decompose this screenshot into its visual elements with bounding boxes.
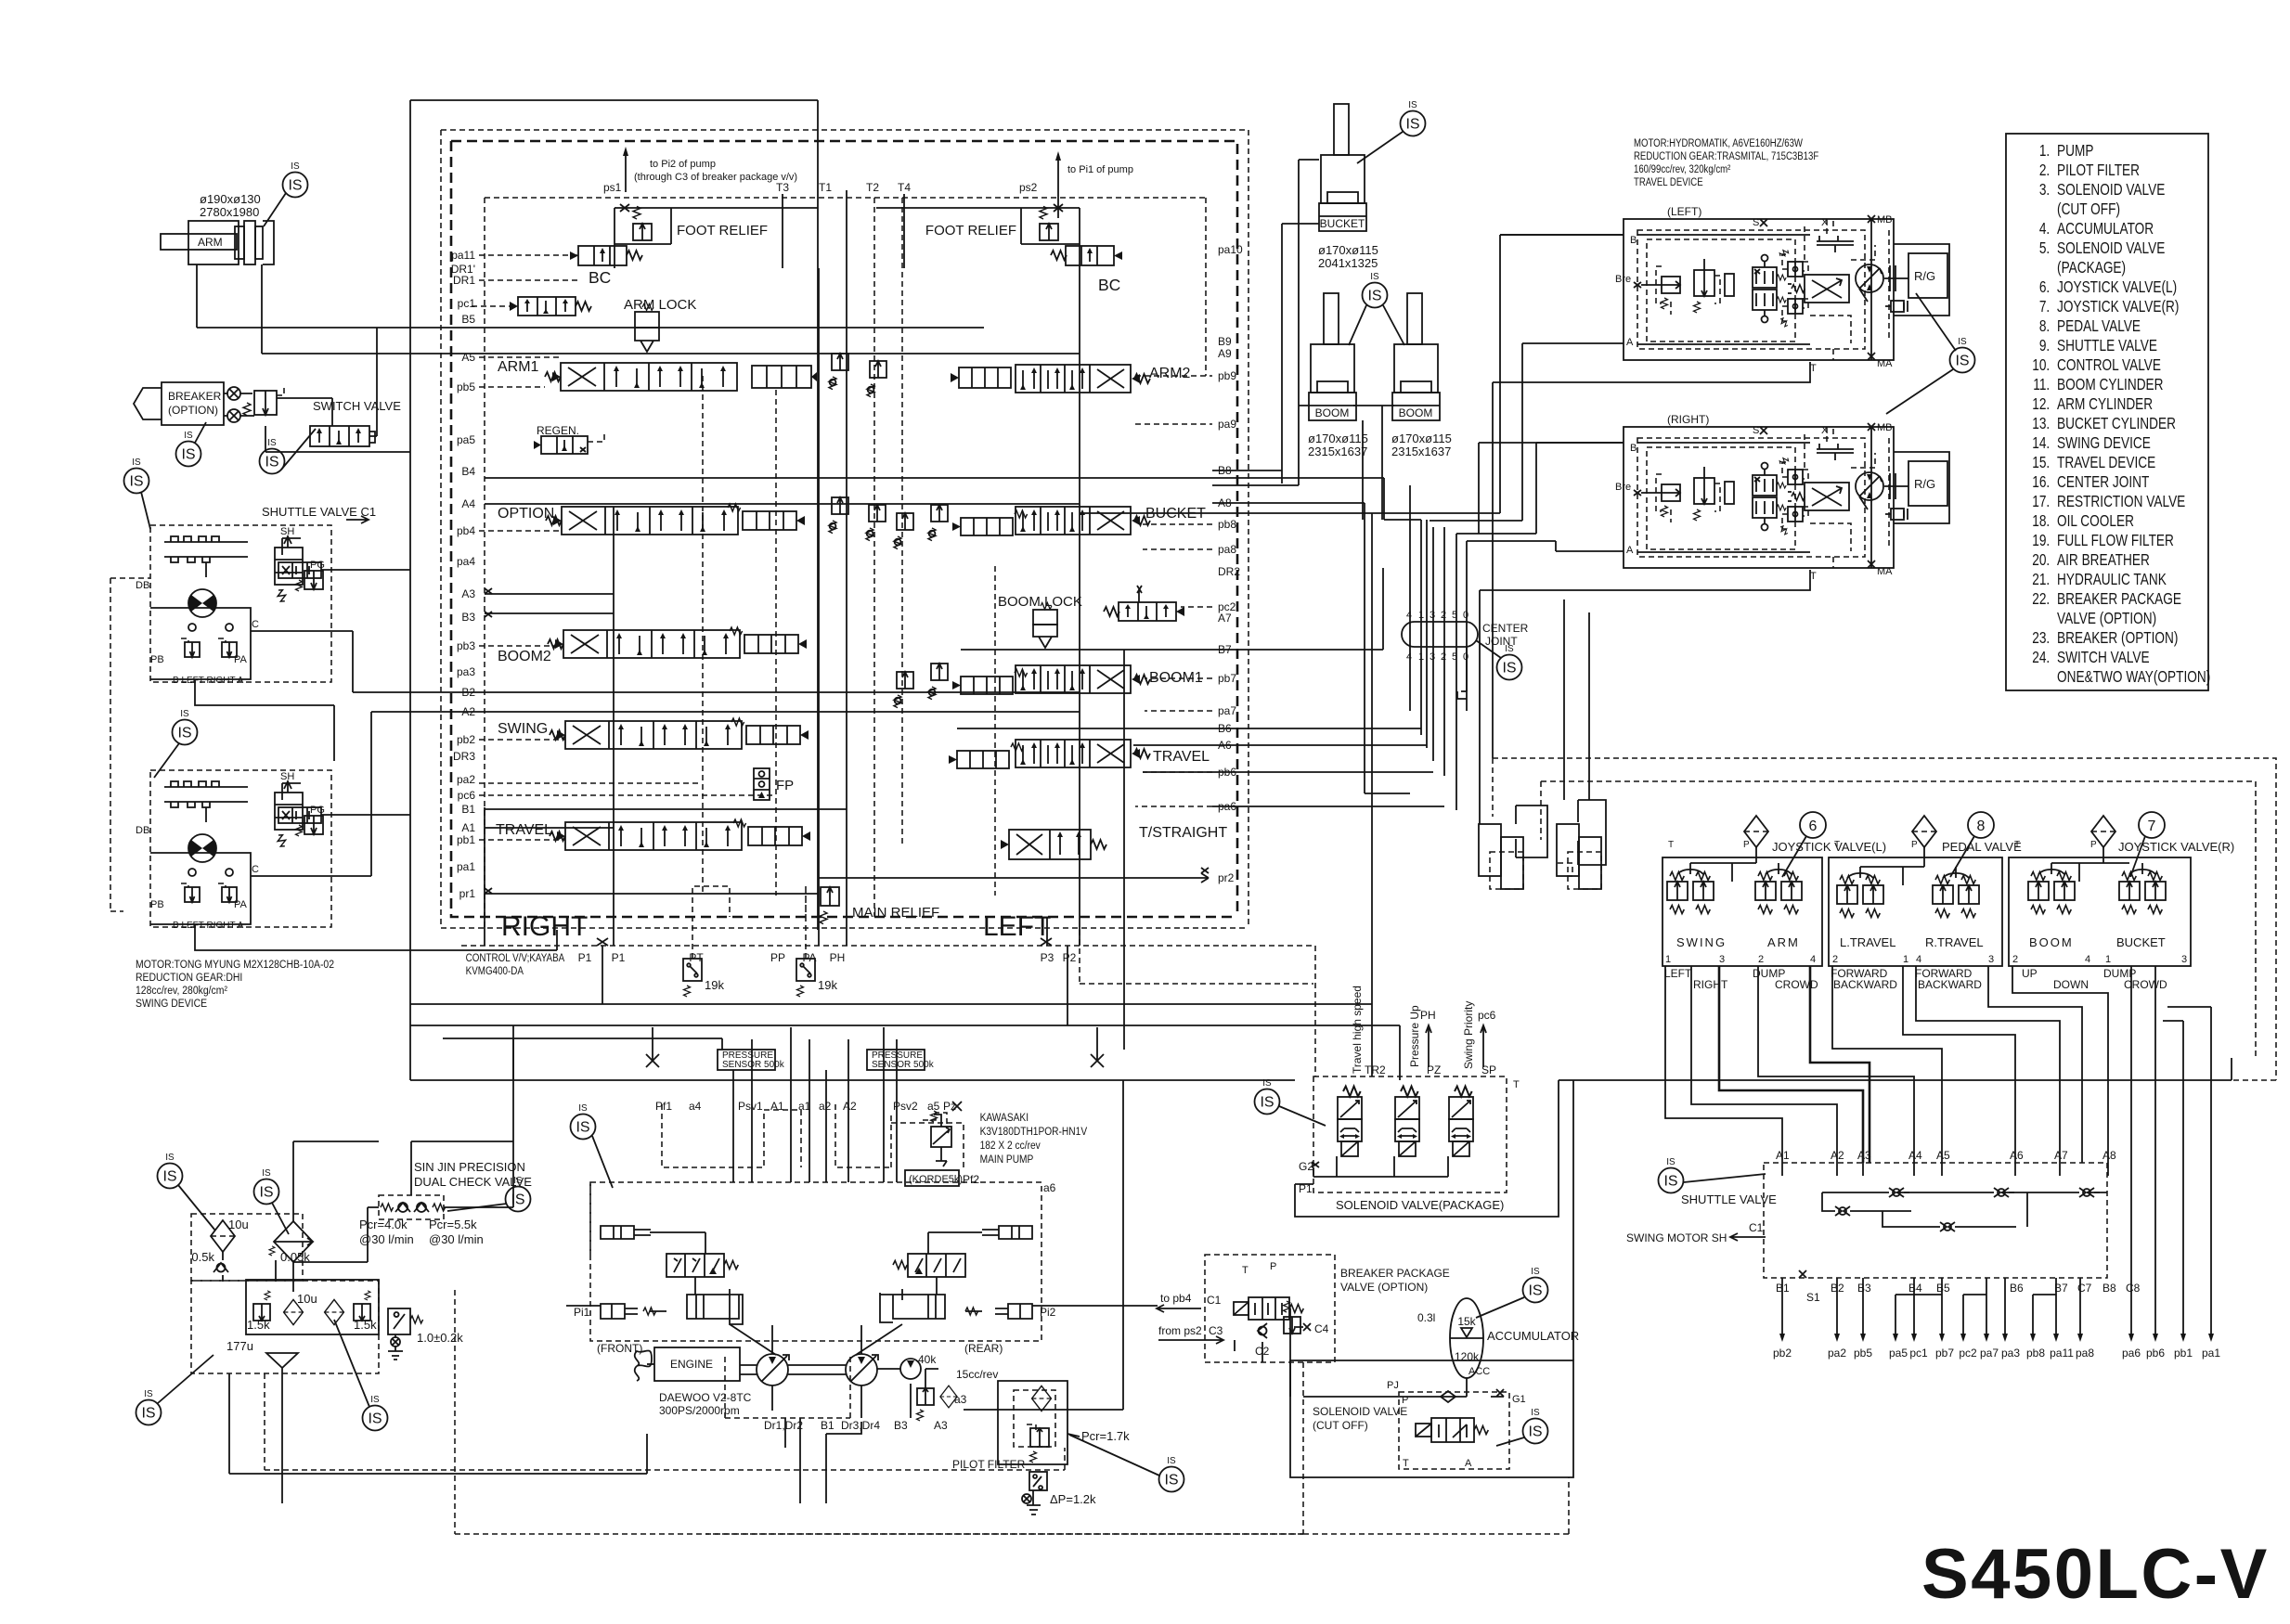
svg-text:SHUTTLE VALVE: SHUTTLE VALVE: [1681, 1192, 1777, 1206]
svg-text:BUCKET CYLINDER: BUCKET CYLINDER: [2057, 416, 2176, 433]
svg-text:Bre: Bre: [1615, 274, 1631, 285]
svg-text:SIN JIN PRECISION: SIN JIN PRECISION: [414, 1160, 525, 1174]
svg-text:MOTOR:HYDROMATIK, A6VE160HZ/63: MOTOR:HYDROMATIK, A6VE160HZ/63W: [1634, 137, 1804, 149]
FP valve: [754, 768, 770, 800]
svg-text:a1: a1: [798, 1100, 811, 1113]
svg-text:pc1: pc1: [458, 297, 476, 310]
svg-text:177u: 177u: [226, 1339, 253, 1353]
tank dash-dot box lower: [191, 1281, 379, 1373]
svg-text:(RIGHT): (RIGHT): [1667, 413, 1709, 426]
svg-text:BREAKER: BREAKER: [168, 390, 222, 403]
svg-text:2: 2: [1441, 610, 1446, 621]
bucket cylinder: [1319, 104, 1366, 231]
svg-text:3: 3: [1988, 954, 1994, 965]
svg-text:SOLENOID VALVE: SOLENOID VALVE: [2057, 182, 2165, 200]
svg-text:Pi2: Pi2: [1040, 1306, 1056, 1319]
svg-text:23.: 23.: [2032, 630, 2050, 648]
svg-text:Travel high speed: Travel high speed: [1351, 986, 1364, 1074]
svg-text:P1: P1: [612, 951, 626, 964]
connections bottom right area: [1559, 1058, 2232, 1360]
svg-text:Pi1: Pi1: [574, 1306, 590, 1319]
joystick valve (L) box: [1663, 857, 1822, 966]
svg-text:SWITCH VALVE: SWITCH VALVE: [2057, 650, 2150, 667]
breaker relief valve: [243, 388, 284, 416]
bundle verticals through center joint: [1410, 485, 1467, 810]
svg-text:12.: 12.: [2032, 396, 2050, 414]
svg-text:T: T: [1403, 1458, 1409, 1469]
svg-text:A1: A1: [461, 821, 475, 834]
IS balloon breaker: [176, 431, 201, 467]
circled numbers: [1800, 812, 1826, 838]
svg-text:11.: 11.: [2033, 377, 2050, 394]
svg-text:JOYSTICK VALVE(R): JOYSTICK VALVE(R): [2118, 840, 2234, 854]
svg-text:RIGHT: RIGHT: [1693, 978, 1728, 991]
svg-text:pa6: pa6: [2122, 1347, 2141, 1360]
swing motor: [188, 589, 216, 617]
svg-text:CENTER JOINT: CENTER JOINT: [2057, 474, 2150, 492]
svg-text:HYDRAULIC TANK: HYDRAULIC TANK: [2057, 572, 2167, 589]
svg-text:P: P: [1743, 840, 1750, 850]
left regulator: [666, 1254, 738, 1277]
control valve bottom plate: [461, 946, 1315, 1076]
svg-text:PEDAL VALVE: PEDAL VALVE: [2057, 318, 2141, 336]
arm cylinder ARM: [161, 192, 274, 264]
svg-text:SHUTTLE VALVE: SHUTTLE VALVE: [2057, 338, 2157, 355]
svg-text:4: 4: [1406, 610, 1412, 621]
svg-text:ps1: ps1: [603, 181, 622, 194]
svg-text:pc2: pc2: [1959, 1347, 1977, 1360]
svg-text:BREAKER (OPTION): BREAKER (OPTION): [2057, 630, 2178, 648]
svg-text:21.: 21.: [2032, 572, 2050, 589]
svg-text:UP: UP: [2022, 967, 2038, 980]
svg-text:0.5k: 0.5k: [191, 1250, 214, 1264]
svg-text:19k: 19k: [705, 978, 724, 992]
svg-text:pb1: pb1: [2174, 1347, 2193, 1360]
svg-text:6.: 6.: [2039, 279, 2050, 297]
feed lines from valve bottom to package: [1371, 513, 1373, 1076]
svg-text:T: T: [1242, 1265, 1249, 1276]
svg-text:pb7: pb7: [1935, 1347, 1954, 1360]
svg-text:S450LC-V: S450LC-V: [1921, 1535, 2270, 1614]
center vertical: [818, 268, 820, 946]
svg-text:pb1: pb1: [457, 833, 475, 846]
svg-text:BOOM2: BOOM2: [498, 649, 551, 664]
svg-text:BOOM LOCK: BOOM LOCK: [998, 594, 1082, 610]
svg-text:BC: BC: [1098, 276, 1120, 294]
control valve dashed outline: [441, 130, 1249, 928]
svg-text:10u: 10u: [297, 1292, 317, 1306]
motor valve block: [150, 608, 251, 679]
svg-text:ARM CYLINDER: ARM CYLINDER: [2057, 396, 2153, 414]
svg-text:DR1: DR1: [453, 274, 475, 287]
svg-text:2041x1325: 2041x1325: [1318, 256, 1378, 270]
svg-text:pc1: pc1: [1909, 1347, 1928, 1360]
inner bypass box: [246, 1280, 379, 1334]
svg-text:Pf1: Pf1: [655, 1100, 672, 1113]
svg-text:300PS/2000rpm: 300PS/2000rpm: [659, 1404, 740, 1417]
svg-text:ø170xø115: ø170xø115: [1308, 432, 1368, 445]
cylinder wires: [1282, 160, 1319, 485]
svg-text:KVMG400-DA: KVMG400-DA: [466, 965, 524, 977]
svg-text:CENTER: CENTER: [1482, 622, 1529, 635]
svg-text:3: 3: [1430, 610, 1435, 621]
10u return filter: [211, 1220, 235, 1252]
pilot dashed frame: [1493, 758, 2276, 1080]
svg-text:T: T: [1668, 840, 1674, 850]
svg-text:Pf2: Pf2: [963, 1173, 979, 1186]
svg-text:pr2: pr2: [1218, 871, 1235, 884]
svg-text:pa11: pa11: [2050, 1347, 2074, 1360]
svg-text:pa7: pa7: [1218, 704, 1236, 717]
main pump dashed box: [590, 1182, 1041, 1341]
svg-text:MB: MB: [1877, 214, 1893, 226]
joystick valve (R) box: [2009, 857, 2191, 966]
svg-text:15k: 15k: [1457, 1315, 1476, 1328]
svg-text:2780x1980: 2780x1980: [200, 205, 259, 219]
svg-text:1: 1: [2105, 954, 2111, 965]
svg-text:VALVE (OPTION): VALVE (OPTION): [2057, 611, 2156, 628]
svg-text:B4: B4: [461, 465, 475, 478]
svg-text:BOOM: BOOM: [1315, 406, 1350, 419]
svg-text:ENGINE: ENGINE: [670, 1358, 713, 1371]
svg-text:T: T: [1834, 840, 1840, 850]
svg-text:CROWD: CROWD: [1775, 978, 1818, 991]
svg-text:3.: 3.: [2039, 182, 2050, 200]
svg-text:JOYSTICK VALVE(R): JOYSTICK VALVE(R): [2057, 299, 2179, 316]
svg-text:ARM: ARM: [1767, 935, 1800, 949]
svg-text:Psv1: Psv1: [738, 1100, 763, 1113]
S1 X mark: [1799, 1270, 1806, 1278]
svg-text:ARM1: ARM1: [498, 359, 539, 375]
X marks ends: [646, 1054, 1104, 1067]
svg-text:SWITCH VALVE: SWITCH VALVE: [313, 399, 401, 413]
svg-text:8: 8: [1977, 818, 1986, 834]
svg-text:pb2: pb2: [457, 733, 475, 746]
swing device data text: [136, 959, 334, 1010]
svg-text:pa3: pa3: [2001, 1347, 2020, 1360]
svg-text:C1: C1: [1749, 1221, 1764, 1234]
reducing valve sections R: [2028, 872, 2049, 914]
svg-text:TRAVEL DEVICE: TRAVEL DEVICE: [2057, 455, 2155, 472]
FOOT RELIEF right box + valve: [876, 208, 1080, 268]
pr2 X: [1201, 868, 1209, 873]
svg-text:to Pi2 of pump: to Pi2 of pump: [650, 159, 716, 170]
IS balloons swing: [124, 458, 149, 494]
svg-text:X: X: [1821, 217, 1829, 228]
wires from breaker/switch to valve: [277, 328, 377, 436]
svg-text:(through C3 of breaker package: (through C3 of breaker package v/v): [634, 172, 797, 183]
svg-text:24.: 24.: [2032, 650, 2050, 667]
svg-text:4: 4: [2085, 954, 2090, 965]
svg-text:4: 4: [1406, 651, 1412, 663]
svg-text:17.: 17.: [2032, 494, 2050, 511]
svg-text:DAEWOO V2-8TC: DAEWOO V2-8TC: [659, 1391, 752, 1404]
svg-text:SWING DEVICE: SWING DEVICE: [136, 998, 208, 1010]
svg-text:C4: C4: [1314, 1322, 1329, 1335]
svg-text:BACKWARD: BACKWARD: [1918, 978, 1982, 991]
hydraulic tank boxes small: [1516, 806, 1547, 857]
svg-text:7.: 7.: [2039, 299, 2050, 316]
svg-text:SOLENOID VALVE: SOLENOID VALVE: [1313, 1405, 1407, 1418]
svg-text:BUCKET: BUCKET: [2116, 935, 2166, 949]
svg-text:SOLENOID VALVE(PACKAGE): SOLENOID VALVE(PACKAGE): [1336, 1198, 1504, 1212]
svg-text:SWING: SWING: [1676, 935, 1727, 949]
svg-text:10.: 10.: [2032, 357, 2050, 375]
svg-text:S: S: [1753, 217, 1759, 228]
svg-text:A9: A9: [1218, 347, 1232, 360]
svg-text:pb8: pb8: [2026, 1347, 2045, 1360]
boom cylinder right: [1392, 293, 1440, 420]
svg-text:pa1: pa1: [2202, 1347, 2220, 1360]
BC valve right: [1051, 246, 1122, 265]
svg-text:JOYSTICK VALVE(L): JOYSTICK VALVE(L): [1772, 840, 1886, 854]
svg-text:SOLENOID VALVE: SOLENOID VALVE: [2057, 240, 2165, 258]
svg-text:PA: PA: [234, 654, 248, 665]
svg-text:1.0±0.2k: 1.0±0.2k: [417, 1331, 463, 1345]
svg-text:C: C: [252, 619, 259, 630]
pc1 pilot valve: [510, 297, 591, 316]
svg-text:A6: A6: [2010, 1149, 2024, 1162]
svg-text:SWING MOTOR SH: SWING MOTOR SH: [1626, 1231, 1727, 1244]
pump circles: [757, 1354, 788, 1386]
svg-text:TRAVEL: TRAVEL: [1153, 749, 1210, 765]
svg-text:5.: 5.: [2039, 240, 2050, 258]
wires swing to valve: [251, 631, 485, 876]
svg-text:10u: 10u: [228, 1218, 249, 1231]
reducing valve sections L: [1667, 872, 1688, 914]
svg-text:Pcr=1.7k: Pcr=1.7k: [1081, 1429, 1130, 1443]
svg-text:2315x1637: 2315x1637: [1391, 445, 1451, 458]
svg-text:T2: T2: [866, 181, 879, 194]
svg-text:0.3l: 0.3l: [1417, 1311, 1435, 1324]
full flow filter big diamond: [274, 1221, 313, 1262]
svg-text:19k: 19k: [818, 978, 837, 992]
travel device note: [1634, 137, 1819, 188]
svg-text:2315x1637: 2315x1637: [1308, 445, 1367, 458]
reducing valve sections pedal: [1837, 876, 1857, 918]
svg-text:PILOT FILTER: PILOT FILTER: [952, 1458, 1026, 1471]
svg-text:22.: 22.: [2032, 591, 2050, 609]
svg-text:4: 4: [1810, 954, 1816, 965]
svg-text:REDUCTION GEAR:DHI: REDUCTION GEAR:DHI: [136, 972, 242, 984]
svg-text:pb6: pb6: [2146, 1347, 2165, 1360]
svg-text:OIL COOLER: OIL COOLER: [2057, 513, 2134, 531]
BUCKET relief pair: [894, 513, 913, 549]
ENGINE: [654, 1347, 740, 1381]
svg-text:SENSOR 500k: SENSOR 500k: [872, 1060, 935, 1070]
svg-text:B1: B1: [461, 803, 475, 816]
svg-text:B9: B9: [1218, 335, 1232, 348]
boom cylinder left: [1309, 293, 1356, 420]
svg-text:ACC: ACC: [1468, 1366, 1490, 1377]
svg-text:PH: PH: [1420, 1009, 1436, 1022]
B5/A5 long wires: [197, 328, 1080, 354]
svg-text:R.TRAVEL: R.TRAVEL: [1925, 935, 1984, 949]
svg-text:2: 2: [1441, 651, 1446, 663]
svg-text:BUCKET: BUCKET: [1320, 217, 1365, 230]
svg-text:ø170xø115: ø170xø115: [1318, 243, 1378, 257]
svg-text:ARM LOCK: ARM LOCK: [624, 297, 696, 313]
svg-text:15.: 15.: [2032, 455, 2050, 472]
svg-text:1: 1: [1665, 954, 1671, 965]
svg-text:Pcr=4.0k: Pcr=4.0k: [359, 1218, 408, 1231]
IS balloon travel: [1950, 337, 1975, 373]
svg-text:PUMP: PUMP: [2057, 143, 2093, 161]
svg-text:B6: B6: [2010, 1282, 2024, 1295]
svg-text:19.: 19.: [2032, 533, 2050, 550]
control valve outer pilot frame: [410, 100, 818, 1080]
svg-text:ø170xø115: ø170xø115: [1391, 432, 1452, 445]
FOOT RELIEF left box + valve: [615, 208, 818, 268]
pump port labels: [655, 1100, 956, 1113]
svg-text:B3: B3: [894, 1419, 908, 1432]
control valve body thick dashed outline: [451, 141, 1237, 917]
svg-text:pa2: pa2: [1828, 1347, 1846, 1360]
svg-text:A: A: [1626, 337, 1634, 348]
svg-text:15cc/rev: 15cc/rev: [956, 1368, 998, 1381]
svg-text:A1: A1: [770, 1100, 784, 1113]
BOOM1 relief pair: [894, 672, 913, 708]
svg-text:a2: a2: [819, 1100, 832, 1113]
svg-text:G1: G1: [1512, 1394, 1526, 1405]
svg-text:Pcr=5.5k: Pcr=5.5k: [429, 1218, 477, 1231]
svg-text:A4: A4: [461, 497, 475, 510]
pressure sensors: [718, 1050, 775, 1070]
svg-text:REGEN.: REGEN.: [537, 424, 579, 437]
svg-text:8.: 8.: [2039, 318, 2050, 336]
svg-text:BOOM: BOOM: [2029, 935, 2074, 949]
IS balloon booms: [1363, 272, 1388, 308]
tank area wires: [223, 1252, 276, 1282]
19k pressure switches: [683, 959, 702, 997]
tank vertical T1: [846, 190, 847, 946]
supply vertical P1: [602, 507, 614, 1004]
svg-text:ø190xø130: ø190xø130: [200, 192, 261, 206]
shuttle outputs down: [1782, 1278, 2080, 1336]
svg-text:B: B: [1630, 235, 1637, 246]
svg-text:3: 3: [2181, 954, 2187, 965]
port stub dashed lines right: [1135, 376, 1212, 806]
svg-text:A7: A7: [1218, 612, 1232, 625]
svg-text:MAIN PUMP: MAIN PUMP: [980, 1154, 1034, 1166]
svg-text:MAIN RELIEF: MAIN RELIEF: [852, 905, 939, 921]
travel T return lines: [1480, 362, 1810, 824]
svg-text:ACCUMULATOR: ACCUMULATOR: [1487, 1329, 1579, 1343]
svg-text:4.: 4.: [2039, 221, 2050, 238]
svg-text:T/STRAIGHT: T/STRAIGHT: [1139, 825, 1227, 841]
0.5k / 0.05k check valves: [213, 1263, 228, 1272]
dashed verticals inside valve: [485, 198, 995, 930]
svg-text:pb5: pb5: [1854, 1347, 1872, 1360]
svg-text:DR2: DR2: [1218, 565, 1240, 578]
svg-text:B5: B5: [1936, 1282, 1950, 1295]
dual check wires: [411, 1038, 513, 1195]
svg-text:T: T: [1513, 1079, 1520, 1090]
left servo cylinder: [687, 1289, 743, 1324]
svg-text:pa5: pa5: [457, 433, 475, 446]
svg-text:pb3: pb3: [457, 639, 475, 652]
IS pump: [571, 1103, 596, 1140]
svg-text:C1: C1: [1207, 1294, 1222, 1307]
svg-text:P2: P2: [1063, 951, 1077, 964]
long supply lines down from control valve: [410, 1004, 1400, 1080]
svg-text:pr1: pr1: [459, 887, 476, 900]
svg-text:1.5k: 1.5k: [247, 1318, 270, 1332]
svg-text:pa5: pa5: [1889, 1347, 1908, 1360]
svg-text:P: P: [1270, 1261, 1276, 1272]
sensor drop verticals: [733, 1027, 897, 1182]
svg-text:B3: B3: [1857, 1282, 1871, 1295]
svg-text:20.: 20.: [2032, 552, 2050, 570]
pc2 pilot valve: [1104, 586, 1184, 621]
svg-text:1.: 1.: [2039, 143, 2050, 161]
svg-text:ARM2: ARM2: [1149, 366, 1191, 381]
svg-text:A4: A4: [1908, 1149, 1922, 1162]
svg-text:RESTRICTION VALVE: RESTRICTION VALVE: [2057, 494, 2185, 511]
right-most outputs: [2131, 966, 2211, 1336]
svg-text:CONTROL V/V;KAYABA: CONTROL V/V;KAYABA: [466, 952, 565, 964]
svg-text:FP: FP: [776, 778, 794, 793]
svg-text:T: T: [1810, 363, 1817, 374]
svg-text:pa7: pa7: [1980, 1347, 1999, 1360]
svg-text:P1: P1: [578, 951, 592, 964]
breaker (option): [134, 382, 240, 425]
svg-text:SHUTTLE VALVE C1: SHUTTLE VALVE C1: [262, 505, 376, 519]
svg-text:SWING DEVICE: SWING DEVICE: [2057, 435, 2151, 453]
svg-text:A5: A5: [1936, 1149, 1950, 1162]
svg-text:P: P: [1911, 840, 1918, 850]
svg-text:P3: P3: [1041, 951, 1054, 964]
svg-text:(REAR): (REAR): [964, 1342, 1003, 1355]
svg-text:(PACKAGE): (PACKAGE): [2057, 260, 2126, 277]
svg-text:PB: PB: [150, 654, 164, 665]
svg-text:pb9: pb9: [1218, 369, 1236, 382]
svg-text:6: 6: [1809, 818, 1818, 834]
svg-text:0: 0: [1463, 610, 1468, 621]
svg-text:BACKWARD: BACKWARD: [1833, 978, 1897, 991]
svg-text:pb7: pb7: [1218, 672, 1236, 685]
ARM1 relief pair: [829, 354, 848, 390]
svg-text:C8: C8: [2126, 1282, 2141, 1295]
svg-text:pa8: pa8: [2076, 1347, 2094, 1360]
svg-text:TRAVEL: TRAVEL: [496, 822, 552, 838]
svg-text:pb4: pb4: [457, 524, 475, 537]
svg-text:DOWN: DOWN: [2053, 978, 2089, 991]
pressure reducing: [296, 571, 324, 591]
left regulator pistons: [601, 1226, 651, 1239]
port stub dashed lines left: [479, 255, 776, 840]
dP switch + ground: [1029, 1472, 1047, 1490]
svg-text:to Pi1 of pump: to Pi1 of pump: [1067, 164, 1133, 175]
MAIN RELIEF: [820, 887, 839, 924]
svg-text:B1: B1: [821, 1419, 834, 1432]
KAWASAKI note: [980, 1112, 1088, 1166]
svg-text:PH: PH: [830, 951, 846, 964]
travel device (RIGHT): [1615, 422, 1949, 582]
row wires solid left half: [485, 478, 1124, 828]
travel device (LEFT): [1615, 214, 1949, 374]
A3/B3 X marks: [485, 588, 492, 894]
svg-text:pb5: pb5: [457, 380, 475, 393]
svg-text:A: A: [1465, 1458, 1472, 1469]
svg-text:FULL FLOW FILTER: FULL FLOW FILTER: [2057, 533, 2174, 550]
svg-text:MOTOR:TONG MYUNG M2X128CHB-10A: MOTOR:TONG MYUNG M2X128CHB-10A-02: [136, 959, 334, 971]
svg-text:@30 l/min: @30 l/min: [429, 1232, 484, 1246]
svg-text:128cc/rev, 280kg/cm²: 128cc/rev, 280kg/cm²: [136, 985, 227, 997]
svg-text:pc6: pc6: [1478, 1009, 1496, 1022]
svg-text:9.: 9.: [2039, 338, 2050, 355]
svg-text:K3V180DTH1POR-HN1V: K3V180DTH1POR-HN1V: [980, 1126, 1088, 1138]
